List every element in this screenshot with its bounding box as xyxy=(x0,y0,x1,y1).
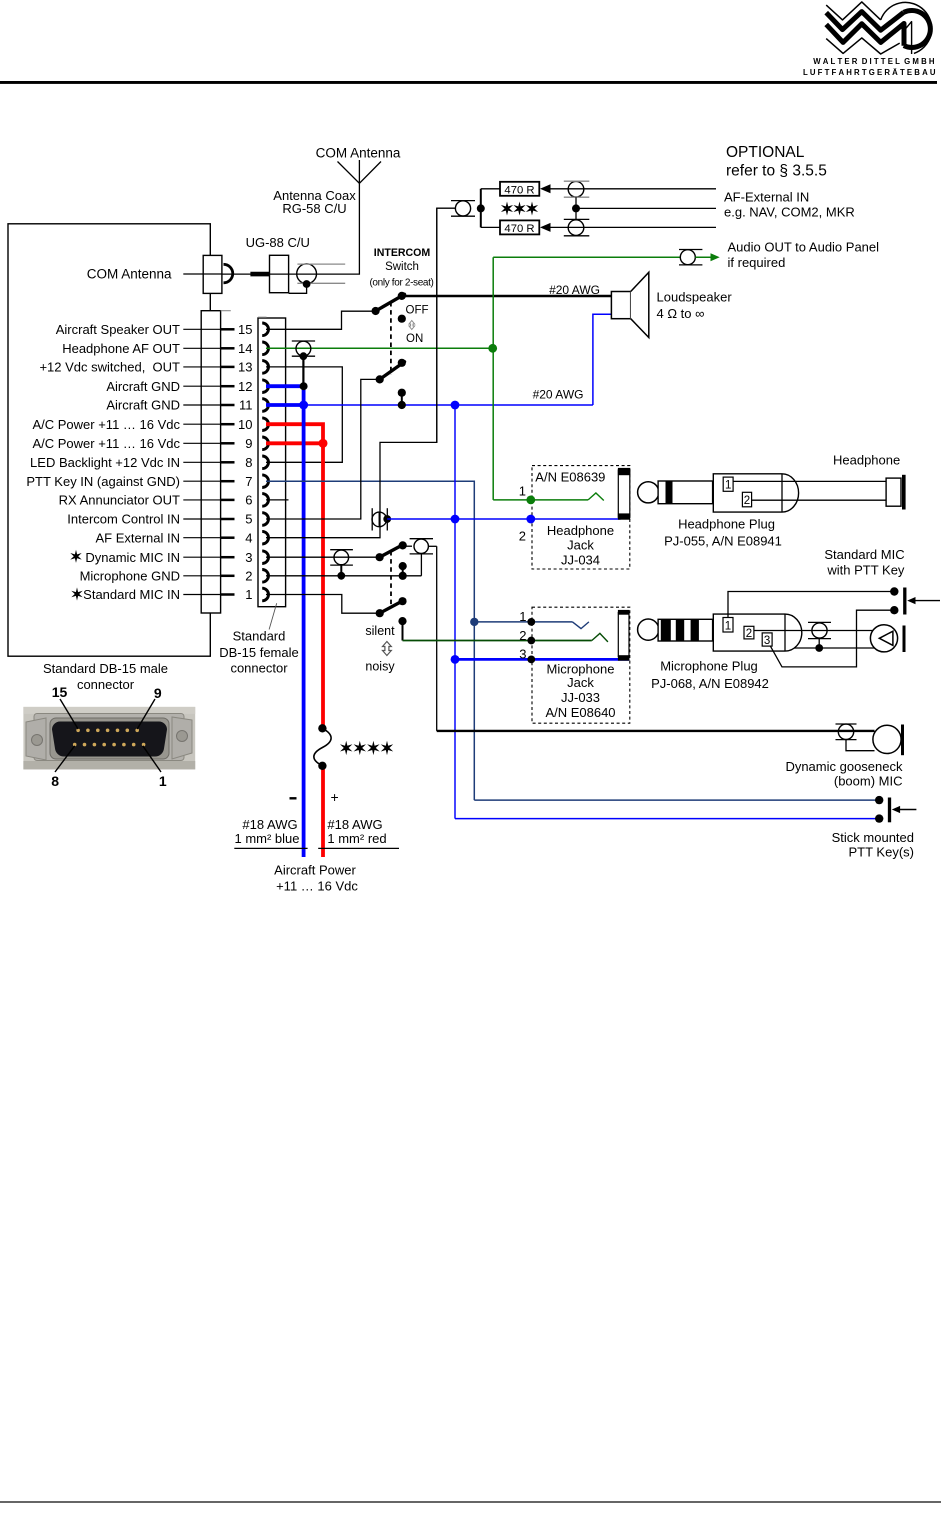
svg-text:LED Backlight +12 Vdc IN: LED Backlight +12 Vdc IN xyxy=(30,455,180,470)
svg-text:Standard MIC: Standard MIC xyxy=(824,547,904,562)
intercom switch section 2 lever xyxy=(380,362,405,380)
svg-text:Dynamic MIC IN: Dynamic MIC IN xyxy=(85,550,180,565)
microphone jack dashed box xyxy=(532,607,630,723)
svg-text:15: 15 xyxy=(52,684,68,700)
intercom switch gang dashed link xyxy=(390,302,392,375)
svg-text:Dynamic gooseneck: Dynamic gooseneck xyxy=(785,759,903,774)
mic jack bushing xyxy=(618,613,629,657)
svg-text:UG-88 C/U: UG-88 C/U xyxy=(246,235,310,250)
svg-text:ON: ON xyxy=(406,333,423,345)
green vertical audio branch xyxy=(492,257,494,500)
UG-88 shield dot and stub xyxy=(303,280,311,288)
svg-text:OPTIONAL: OPTIONAL xyxy=(726,144,805,161)
svg-text:+11 … 16 Vdc: +11 … 16 Vdc xyxy=(276,879,358,894)
svg-text:1: 1 xyxy=(725,480,731,492)
svg-text:INTERCOM: INTERCOM xyxy=(374,247,431,259)
DB-15 male connector photo xyxy=(23,707,195,770)
svg-text:A/N E08640: A/N E08640 xyxy=(545,705,615,720)
coax feedthrough audio out xyxy=(680,250,695,265)
coax feedthrough pin5 intercom control xyxy=(372,512,387,527)
svg-text:14: 14 xyxy=(238,341,252,356)
headphone jack pin2 blue wire xyxy=(526,515,535,524)
svg-text:e.g. NAV, COM2, MKR: e.g. NAV, COM2, MKR xyxy=(724,205,855,220)
svg-text:8: 8 xyxy=(51,773,59,789)
svg-text:3: 3 xyxy=(764,635,770,647)
svg-text:11: 11 xyxy=(239,398,253,413)
wire pin12 blue thick xyxy=(266,384,304,388)
svg-text:2: 2 xyxy=(744,495,750,507)
BNC bayonet hook xyxy=(224,264,233,283)
svg-text:Microphone Plug: Microphone Plug xyxy=(660,659,758,674)
audio out green wire xyxy=(493,256,680,258)
svg-text:2: 2 xyxy=(746,628,752,640)
wire pin15 to intercom switch xyxy=(266,311,374,329)
UG-88 coax feedthrough xyxy=(297,264,317,284)
pin3 shield stub to pin2 xyxy=(340,565,342,576)
wire AF-external upper xyxy=(550,188,716,190)
headphone jack pin1 green wire xyxy=(493,499,588,501)
headphone plug pin1 box xyxy=(723,477,733,491)
up-down arrow symbol xyxy=(409,321,415,330)
svg-text:+12 Vdc switched, OUT: +12 Vdc switched, OUT xyxy=(39,360,180,375)
AF middle wire junction xyxy=(572,204,580,212)
mic shield dot and wire xyxy=(818,639,820,648)
svg-text:Loudspeaker: Loudspeaker xyxy=(657,290,733,305)
svg-text:COM Antenna: COM Antenna xyxy=(87,267,172,282)
svg-text:noisy: noisy xyxy=(365,659,395,673)
svg-text:10: 10 xyxy=(238,417,252,432)
svg-text:L U F T F A H R T G E R Ä T E: L U F T F A H R T G E R Ä T E B A U xyxy=(803,68,936,77)
Walter Dittel logo xyxy=(803,2,936,77)
wire COM antenna label to BNC xyxy=(183,273,222,275)
svg-text:Aircraft Speaker OUT: Aircraft Speaker OUT xyxy=(56,322,180,337)
svg-text:Standard DB-15 male: Standard DB-15 male xyxy=(43,661,168,676)
svg-text:Headphone: Headphone xyxy=(833,452,900,467)
mic jack pin3 blue wire xyxy=(455,658,630,661)
navy wire to mic jack pin1 xyxy=(474,621,572,623)
microphone plug body xyxy=(713,614,802,651)
mic jack pin2 dark green wire xyxy=(403,640,592,642)
mute switch upper lever xyxy=(380,544,405,557)
svg-text:Jack: Jack xyxy=(567,675,594,690)
wire pin10 red thick xyxy=(266,424,323,443)
svg-text:PJ-055, A/N E08941: PJ-055, A/N E08941 xyxy=(664,534,782,549)
wire pin2 mic gnd xyxy=(266,575,403,577)
navy junction dot mic jack pin1 xyxy=(470,618,478,626)
wire intercom to loudspeaker xyxy=(402,295,612,297)
svg-text:1: 1 xyxy=(519,609,526,624)
svg-text:2: 2 xyxy=(519,529,526,544)
svg-text:if required: if required xyxy=(728,255,786,270)
svg-text:A/C Power +11 … 16 Vdc: A/C Power +11 … 16 Vdc xyxy=(32,436,180,451)
gooseneck shield stub xyxy=(846,740,875,751)
coax feedthrough AF lower right xyxy=(568,220,584,236)
svg-text:Aircraft GND: Aircraft GND xyxy=(106,398,180,413)
black vertical from AF junction xyxy=(436,208,438,442)
mute gang dashed link xyxy=(390,551,392,608)
svg-text:1: 1 xyxy=(159,773,167,789)
svg-text:#20 AWG: #20 AWG xyxy=(533,388,584,402)
blue wire to headphone jack sleeve xyxy=(387,518,620,520)
svg-text:Standard MIC IN: Standard MIC IN xyxy=(83,587,180,602)
headphone plug body xyxy=(713,474,798,512)
svg-text:9: 9 xyxy=(154,685,162,701)
headphone wires xyxy=(733,480,886,482)
wire to gooseneck mic xyxy=(437,730,875,732)
mic plug pin3 box xyxy=(762,633,772,646)
female connector leader xyxy=(269,603,277,629)
terminal lines xyxy=(234,847,307,849)
svg-text:Switch: Switch xyxy=(385,261,419,273)
svg-text:with PTT Key: with PTT Key xyxy=(826,563,905,578)
coax feedthrough on headphone AF line xyxy=(296,341,311,356)
resistor 470R lower xyxy=(481,226,500,228)
svg-text:Aircraft Power: Aircraft Power xyxy=(274,863,356,878)
svg-text:3: 3 xyxy=(245,550,252,565)
mute switch upper contacts xyxy=(399,562,407,570)
wire pin9 red thick xyxy=(266,441,323,445)
mic plug pin2 box xyxy=(744,626,754,639)
svg-text:9: 9 xyxy=(245,436,252,451)
wire pin14 green headphone AF xyxy=(266,347,493,349)
four stars xyxy=(340,741,352,755)
coax feedthrough pin3 dynamic mic xyxy=(334,550,349,565)
top rule xyxy=(0,81,937,84)
svg-text:AF-External IN: AF-External IN xyxy=(724,190,809,205)
svg-text:470 R: 470 R xyxy=(504,223,534,235)
radio unit outline box xyxy=(8,224,210,656)
svg-text:15: 15 xyxy=(238,322,252,337)
svg-text:13: 13 xyxy=(238,360,252,375)
coax feedthrough AF upper right xyxy=(568,181,584,197)
boom MIC symbol xyxy=(870,625,897,652)
wire pin13 to pin8 loop xyxy=(266,367,342,462)
svg-text:1: 1 xyxy=(725,620,731,632)
svg-text:(boom) MIC: (boom) MIC xyxy=(834,773,903,788)
svg-text:1 mm² blue: 1 mm² blue xyxy=(234,831,299,846)
svg-text:Intercom Control IN: Intercom Control IN xyxy=(67,512,180,527)
antenna downlead wire xyxy=(222,183,360,274)
svg-text:Headphone Plug: Headphone Plug xyxy=(678,517,775,532)
svg-text:Jack: Jack xyxy=(567,538,594,553)
svg-text:AF External IN: AF External IN xyxy=(95,530,180,545)
coax feedthrough AF external xyxy=(455,201,470,216)
mic plug pin1 box xyxy=(723,618,733,633)
mute switch lower lever xyxy=(380,600,405,613)
antenna symbol xyxy=(338,160,382,183)
wire pin3 through coax to mute switch xyxy=(266,556,378,558)
svg-text:Microphone GND: Microphone GND xyxy=(80,568,180,583)
svg-text:JJ-033: JJ-033 xyxy=(561,690,600,705)
star mark pin 1 xyxy=(71,587,82,600)
svg-text:Headphone AF OUT: Headphone AF OUT xyxy=(62,341,180,356)
svg-text:refer to § 3.5.5: refer to § 3.5.5 xyxy=(726,163,827,180)
photo leader lines xyxy=(60,699,78,729)
microphone plug tip xyxy=(638,619,659,640)
svg-text:1: 1 xyxy=(245,587,252,602)
headphone jack bushing xyxy=(618,470,630,517)
svg-text:Stick mounted: Stick mounted xyxy=(832,830,914,845)
headphone earpiece xyxy=(886,478,901,506)
headphone plug pin2 box xyxy=(742,492,751,507)
svg-text:3: 3 xyxy=(519,646,526,661)
blue vertical GND distribution xyxy=(454,405,456,819)
svg-text:4: 4 xyxy=(245,530,252,545)
svg-text:OFF: OFF xyxy=(406,305,429,317)
svg-text:12: 12 xyxy=(238,379,252,394)
svg-text:JJ-034: JJ-034 xyxy=(561,553,600,568)
star mark pin 3 xyxy=(70,550,81,563)
headphone plug shaft xyxy=(658,481,713,504)
coax feedthrough gooseneck xyxy=(838,724,853,739)
headphone plug tip xyxy=(638,482,659,503)
svg-text:(only for 2-seat): (only for 2-seat) xyxy=(369,277,433,288)
coax feedthrough gooseneck line xyxy=(414,539,428,553)
fuse break on red wire xyxy=(318,724,326,732)
blue vertical to loudspeaker xyxy=(593,314,612,405)
svg-text:DB-15 female: DB-15 female xyxy=(219,645,298,660)
intercom switch OFF contact xyxy=(398,315,406,323)
green junction dot pin14 xyxy=(488,344,497,353)
svg-text:#18 AWG: #18 AWG xyxy=(242,817,297,832)
wire mic plug pin3 to PTT xyxy=(771,610,895,667)
wire pin7 navy PTT xyxy=(266,481,474,800)
shield dot and wire to pin12 xyxy=(300,352,308,360)
svg-text:1 mm² red: 1 mm² red xyxy=(327,831,386,846)
wire upper mute to coax xyxy=(403,545,412,547)
wire pin11 blue thick xyxy=(266,403,304,407)
UG-88 connector box xyxy=(270,255,289,292)
svg-text:470 R: 470 R xyxy=(504,184,534,196)
svg-text:Standard: Standard xyxy=(233,629,286,644)
svg-text:A/N E08639: A/N E08639 xyxy=(535,470,605,485)
svg-text:#18 AWG: #18 AWG xyxy=(327,817,382,832)
three stars xyxy=(501,202,513,216)
svg-text:PJ-068, A/N E08942: PJ-068, A/N E08942 xyxy=(651,676,769,691)
svg-text:5: 5 xyxy=(245,512,252,527)
svg-text:+: + xyxy=(331,789,339,805)
svg-text:connector: connector xyxy=(77,677,135,692)
intercom switch section 1 lever xyxy=(376,294,405,311)
shield dot pin5 coax xyxy=(383,515,391,523)
navy wire to stick PTT upper xyxy=(474,799,879,801)
svg-text:4 Ω to ∞: 4 Ω to ∞ xyxy=(657,306,705,321)
blue vertical aircraft power minus xyxy=(302,386,306,857)
svg-text:Audio OUT to Audio Panel: Audio OUT to Audio Panel xyxy=(728,240,880,255)
DB-15 male connector column xyxy=(201,311,220,613)
wire pin5 to intercom switch lower xyxy=(266,379,376,519)
svg-text:2: 2 xyxy=(245,569,252,584)
BNC COM antenna connector box xyxy=(203,255,222,293)
svg-text:RG-58 C/U: RG-58 C/U xyxy=(282,201,346,216)
wire pin11 thin blue to speaker return xyxy=(304,404,593,406)
microphone plug shaft xyxy=(658,619,713,641)
standard MIC PTT arrow xyxy=(915,600,941,602)
coax feedthrough mic line xyxy=(812,623,827,638)
mute switch lower contact xyxy=(398,617,406,625)
svg-text:PTT Key(s): PTT Key(s) xyxy=(849,844,915,859)
svg-text:COM Antenna: COM Antenna xyxy=(316,146,401,161)
stick PTT contacts xyxy=(875,796,883,804)
resistor 470R upper xyxy=(481,188,500,190)
gooseneck mic capsule xyxy=(873,725,901,753)
bottom rule xyxy=(0,1501,941,1502)
DB-15 female connector box xyxy=(258,318,286,607)
svg-text:#20 AWG: #20 AWG xyxy=(549,283,600,297)
wire mic plug pin2 to boom mic xyxy=(754,630,873,632)
mic jack pin1 dot xyxy=(527,618,535,626)
svg-text:W A L T E R D I T T E L G M: W A L T E R D I T T E L G M B H xyxy=(813,57,935,66)
wire pin6 stub xyxy=(266,499,289,501)
svg-text:silent: silent xyxy=(365,624,395,638)
standard MIC PTT key bar xyxy=(903,588,906,615)
svg-text:RX Annunciator OUT: RX Annunciator OUT xyxy=(59,493,180,508)
svg-text:Headphone: Headphone xyxy=(547,523,614,538)
junction dot 470R xyxy=(477,204,485,212)
svg-text:connector: connector xyxy=(230,660,288,675)
blue wire to stick PTT lower xyxy=(455,818,879,820)
loudspeaker symbol xyxy=(611,292,630,319)
polarity labels xyxy=(290,797,297,799)
audio out arrow xyxy=(695,256,713,258)
svg-text:PTT Key IN (against GND): PTT Key IN (against GND) xyxy=(26,474,180,489)
wire pin4 AF external route xyxy=(266,208,455,538)
stick PTT arrow xyxy=(899,809,916,811)
headphone jack dashed box xyxy=(532,466,630,569)
wire mic plug pin1 to PTT xyxy=(728,592,894,618)
wire AF-external lower xyxy=(550,226,716,228)
svg-text:7: 7 xyxy=(245,474,252,489)
svg-text:6: 6 xyxy=(245,493,252,508)
shield stub coax to pin2 line xyxy=(420,554,422,576)
svg-text:A/C Power +11 … 16 Vdc: A/C Power +11 … 16 Vdc xyxy=(32,417,180,432)
svg-text:1: 1 xyxy=(519,483,526,498)
svg-text:2: 2 xyxy=(519,628,526,643)
wire pin1 to mute switch lower xyxy=(266,595,376,614)
stick PTT key bar xyxy=(888,798,891,823)
red vertical aircraft power plus xyxy=(321,443,325,728)
intercom switch section 2 contacts to GND xyxy=(398,389,406,397)
svg-text:Aircraft GND: Aircraft GND xyxy=(106,379,180,394)
svg-text:8: 8 xyxy=(245,455,252,470)
wire coax to gooseneck vertical xyxy=(428,545,436,547)
